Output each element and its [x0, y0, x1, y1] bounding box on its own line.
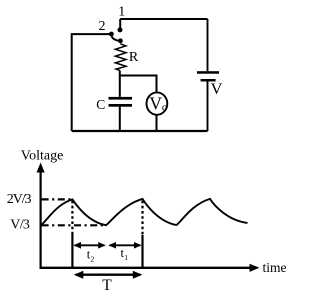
label t1: [121, 246, 129, 262]
marker line at first peak (dotted upper part): [71, 201, 73, 234]
waveform Vc(t): [41, 199, 248, 225]
svg-text:time: time: [263, 260, 287, 275]
svg-text:Voltage: Voltage: [21, 149, 64, 164]
svg-text:V/3: V/3: [10, 217, 30, 232]
axis label time: [263, 260, 287, 275]
dashed level 2V/3: [42, 198, 72, 200]
node 1 (switch contact 1): [118, 27, 123, 32]
switch arm (pole to contact 2): [111, 34, 120, 41]
dashed level V/3: [42, 224, 105, 226]
marker line at first peak (solid lower part): [71, 234, 73, 268]
wire top (node 1 to battery top): [120, 19, 207, 28]
svg-text:C: C: [96, 97, 105, 112]
x axis (time): [40, 264, 260, 272]
node 2 (switch contact 2): [109, 32, 114, 37]
switch pivot node: [118, 38, 123, 43]
wire: resistor to junction, branch to voltmeter, down to capacitor: [120, 71, 157, 97]
interval arrow t1: [109, 242, 142, 249]
period arrow T: [74, 271, 143, 279]
svg-text:T: T: [102, 277, 112, 294]
label t2: [87, 248, 95, 264]
label 2: [99, 19, 106, 34]
label C: [96, 97, 105, 112]
axis label Voltage: [21, 149, 64, 164]
label T: [102, 277, 112, 294]
label V (battery): [211, 79, 223, 98]
resistor R: [115, 44, 126, 71]
label R: [129, 50, 139, 65]
battery V: [197, 71, 219, 131]
svg-text:1: 1: [118, 5, 125, 20]
wire right (top rail to battery): [207, 19, 209, 71]
label Vc: [149, 93, 166, 113]
y axis (Voltage): [37, 163, 45, 269]
capacitor C: [109, 97, 133, 131]
wire left (node 2 to bottom rail): [72, 34, 110, 131]
marker line at second peak (solid lower part): [141, 235, 143, 267]
svg-text:c: c: [162, 102, 167, 113]
label 2V/3: [7, 192, 32, 207]
marker line at second peak (dotted upper part): [141, 201, 143, 235]
svg-text:V: V: [211, 79, 223, 98]
label V/3: [10, 217, 30, 232]
interval arrow t2: [74, 242, 106, 249]
svg-text:R: R: [129, 50, 139, 65]
svg-text:2: 2: [99, 19, 106, 34]
svg-text:1: 1: [124, 253, 128, 262]
wire bottom rail: [72, 130, 208, 132]
voltmeter Vc: [147, 92, 168, 131]
label 1: [118, 5, 125, 20]
svg-text:2V/3: 2V/3: [7, 192, 32, 207]
svg-text:V: V: [149, 93, 162, 113]
svg-text:2: 2: [91, 255, 95, 264]
